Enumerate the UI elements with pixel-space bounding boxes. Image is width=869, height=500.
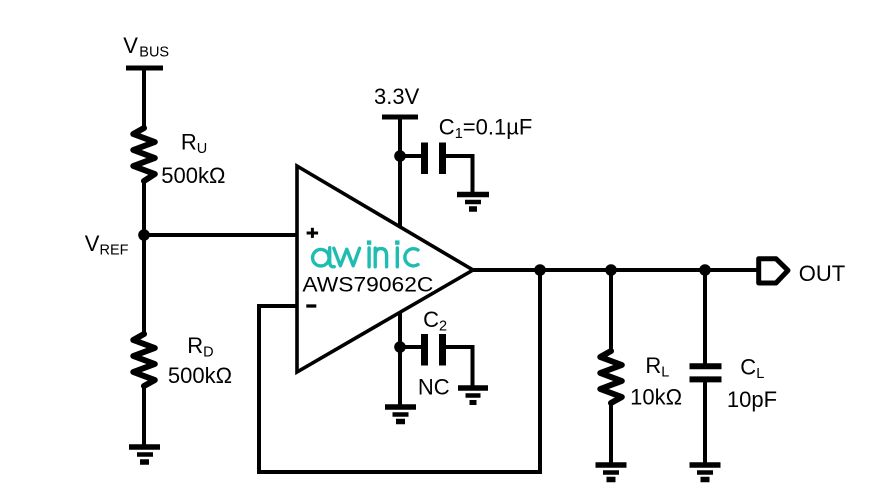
wire CL to ground	[703, 379, 707, 463]
svg-text:OUT: OUT	[799, 261, 845, 286]
ground GND6	[690, 465, 721, 480]
power rail VBUS bar	[126, 66, 163, 71]
wire op-amp output	[473, 268, 757, 272]
svg-text:3.3V: 3.3V	[374, 84, 420, 109]
wire C1 to ground	[446, 156, 473, 192]
capacitor CL	[690, 366, 722, 379]
awinic logo	[313, 240, 418, 266]
wire junction to C2	[400, 345, 421, 349]
svg-text:500kΩ: 500kΩ	[161, 163, 225, 188]
junction dot C2	[394, 341, 406, 353]
wire junction to C1	[400, 154, 421, 158]
wire VREF to op-amp plus input	[144, 233, 297, 237]
wire RU to RD	[142, 181, 146, 336]
resistor RU	[133, 128, 155, 181]
svg-text:AWS79062C: AWS79062C	[302, 273, 433, 297]
wire CL top	[703, 270, 707, 364]
ground GND3	[385, 407, 416, 422]
ground GND2	[457, 195, 489, 210]
wire C2 to ground	[446, 347, 473, 386]
wire RL to ground	[609, 403, 613, 463]
ground GND4	[458, 388, 488, 403]
resistor RD	[133, 334, 155, 386]
wire RD to ground	[142, 386, 146, 445]
svg-text:C1=0.1µF: C1=0.1µF	[439, 114, 533, 142]
terminal OUT	[759, 259, 788, 283]
resistor RL	[600, 351, 622, 403]
op-amp U1 triangle	[297, 166, 473, 372]
svg-text:10kΩ: 10kΩ	[630, 385, 682, 410]
junction dot feedback	[534, 264, 546, 276]
wire feedback loop	[259, 270, 540, 472]
op-amp minus sign	[306, 304, 316, 307]
capacitor C1	[425, 143, 443, 175]
wire RL top	[609, 270, 613, 353]
junction dot RL	[605, 264, 617, 276]
wire op-amp bottom to C2 ground	[398, 313, 402, 405]
node VREF dot	[138, 229, 150, 241]
svg-text:10pF: 10pF	[727, 387, 777, 412]
capacitor C2	[425, 334, 443, 366]
ground GND5	[596, 465, 627, 480]
wire 3.3V to op-amp top	[398, 117, 402, 227]
ground GND1	[129, 447, 160, 462]
junction dot supply	[394, 150, 406, 162]
op-amp plus sign	[307, 228, 319, 238]
svg-text:500kΩ: 500kΩ	[168, 363, 232, 388]
junction dot CL	[699, 264, 711, 276]
power rail 3.3V bar	[382, 115, 418, 120]
svg-text:NC: NC	[418, 374, 450, 399]
wire VBUS to RU	[142, 68, 146, 130]
